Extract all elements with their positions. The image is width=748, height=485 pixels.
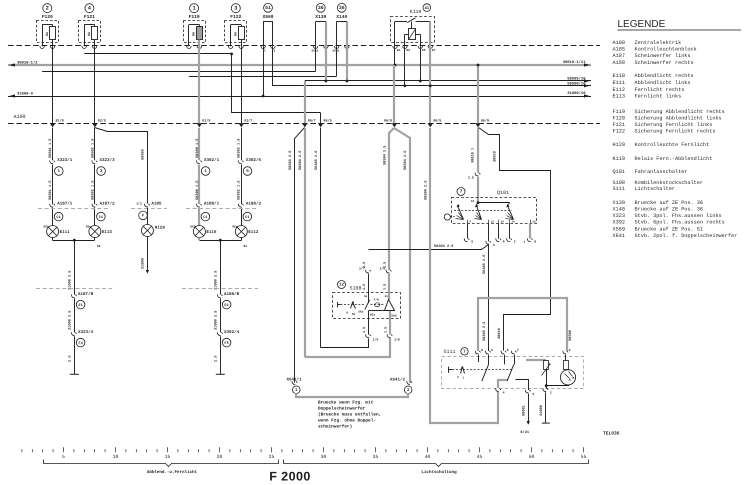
svg-text:LEGENDE: LEGENDE <box>618 19 666 30</box>
svg-text:E113: E113 <box>102 230 113 235</box>
fuse F119 circled position 1 <box>184 4 206 49</box>
svg-text:F121: F121 <box>84 14 95 20</box>
svg-text:Abblendlicht rechts: Abblendlicht rechts <box>635 73 694 79</box>
wire K119-30 to 30010 bus <box>394 46 396 65</box>
switch Q101 Fahranlasschalter box <box>452 188 537 224</box>
S111 bottom clip 4 <box>496 388 505 394</box>
wire 58300 from X392/1 down to headlamp connector A188/1 <box>198 165 200 205</box>
svg-text:58502 1.5: 58502 1.5 <box>90 139 95 158</box>
connector X323/3 clip and pin circle <box>92 157 115 175</box>
svg-text:31: 31 <box>243 244 247 248</box>
S108 flasher cam ellipse F/N <box>374 298 380 307</box>
S108 top pin 1/7 clip <box>359 262 371 290</box>
svg-text:Fahranlasschalter: Fahranlasschalter <box>635 169 688 175</box>
S108 dip contact slash <box>365 300 370 310</box>
wire terminal 86/8 riser from K119-30 node (gray) <box>393 65 395 123</box>
wire X323/4 to ground bar <box>74 336 76 374</box>
wire 58305 from Q101 clip 3 down to S111 clip 6 <box>482 245 489 351</box>
wire 58501 from X323/1 down to headlamp connector A187/1 <box>52 165 54 205</box>
svg-text:Bruecke wenn Fzg. mit: Bruecke wenn Fzg. mit <box>318 399 374 405</box>
S108 top pin 1/6 clip (gray feed) <box>380 262 392 290</box>
svg-text:Scheinwerfer rechts: Scheinwerfer rechts <box>635 60 694 66</box>
svg-text:30010: 30010 <box>493 151 498 162</box>
K119 coil <box>405 29 421 47</box>
bridge X569 circled position 51 <box>261 3 275 48</box>
wire X392/4 to ground bar <box>220 336 222 374</box>
svg-text:A185: A185 <box>613 47 625 53</box>
Q101 contact arm 3 <box>506 204 514 220</box>
svg-text:Fernlicht links: Fernlicht links <box>635 94 682 100</box>
svg-text:Zentralelektrik: Zentralelektrik <box>635 40 682 46</box>
wire 30010 tap down to terminal 86/9 (gray) <box>477 65 479 123</box>
note text Bruecke wenn Fzg <box>318 399 381 429</box>
svg-text:X139: X139 <box>613 200 625 206</box>
connector A188/B <box>217 291 239 309</box>
svg-text:Stvb. 3pol. Fhs.aussen links: Stvb. 3pol. Fhs.aussen links <box>635 213 722 219</box>
wire 58302 from terminal down to connector X392/5 <box>241 128 243 160</box>
svg-text:56b: 56b <box>391 314 396 318</box>
svg-text:1.5: 1.5 <box>383 327 388 333</box>
svg-text:2: 2 <box>514 239 516 243</box>
svg-text:15: 15 <box>165 454 171 460</box>
Q101 clip 2 <box>507 224 516 244</box>
svg-text:wenn Fzg. ohne Doppel-: wenn Fzg. ohne Doppel- <box>318 417 376 423</box>
svg-text:X569: X569 <box>262 14 273 20</box>
junction X140-2 on 58505 <box>346 80 349 83</box>
S111 clip8-clip2 jumper rail (gray) <box>478 298 567 351</box>
bridge X140 circled position 36 <box>334 3 349 48</box>
wire H129 ground stub <box>147 237 149 271</box>
svg-text:10: 10 <box>113 454 119 460</box>
terminal 81/5 on A100 lower edge <box>197 118 211 127</box>
svg-text:2: 2 <box>569 348 571 352</box>
S111 bottom clip 3 wire 58001 to socket 8/21 <box>520 389 534 435</box>
svg-text:31000 2.5: 31000 2.5 <box>68 271 73 290</box>
svg-text:S111: S111 <box>444 349 456 355</box>
wire into lamp E111 <box>52 208 54 226</box>
svg-text:2: 2 <box>46 5 49 11</box>
svg-text:56a: 56a <box>358 311 363 314</box>
lamp E112 <box>235 226 247 238</box>
section brace Lichtschaltung <box>284 460 589 476</box>
Q101 clip 5 <box>464 224 473 244</box>
ground bar right <box>216 373 225 375</box>
svg-text:X569: X569 <box>613 226 625 232</box>
svg-text:X392: X392 <box>613 219 625 225</box>
terminal 86/9 on A100 lower edge <box>475 118 489 127</box>
svg-text:56: 56 <box>352 313 356 316</box>
svg-text:Scheinwerfer links: Scheinwerfer links <box>635 53 691 59</box>
svg-text:H129: H129 <box>155 225 166 230</box>
svg-text:25: 25 <box>269 454 275 460</box>
wire node 86/5 feed at y113 <box>232 112 321 114</box>
S108 bottom pin 1/5 clip <box>362 318 379 341</box>
S108 internal link to bottom-left pin <box>369 310 385 312</box>
wire 86/8 diagonal to X641/2 column (gray) <box>394 128 410 383</box>
S108 internal gray drop bottom-right <box>389 311 391 319</box>
svg-text:8: 8 <box>534 239 536 243</box>
svg-text:Bruecke auf ZE Pos. 51: Bruecke auf ZE Pos. 51 <box>635 226 704 232</box>
headlamp connector A188/1 <box>197 201 220 221</box>
wire 30010 thin branch from 86/9 to S111 clip 5 <box>479 128 551 351</box>
svg-text:81/7: 81/7 <box>244 118 252 123</box>
svg-text:58302 1.5: 58302 1.5 <box>237 181 242 200</box>
Q101 key symbol <box>444 214 455 220</box>
svg-text:58302 1.5: 58302 1.5 <box>237 139 242 158</box>
wire X569 pin1 to 31000 bus <box>263 46 265 96</box>
connector X641/2 <box>390 376 412 393</box>
A187 headlamp unit boundary dashed <box>38 208 109 210</box>
A188 headlamp unit boundary dashed <box>186 208 256 210</box>
svg-text:58501 1.5: 58501 1.5 <box>48 181 53 200</box>
S111 panel lamp resistor <box>564 355 569 370</box>
svg-text:3: 3 <box>532 392 534 396</box>
svg-text:56: 56 <box>364 295 368 298</box>
wire S108 1/8 loop bottom (gray) <box>305 338 390 357</box>
svg-text:E113: E113 <box>613 94 625 100</box>
wire S108 1/7 into box <box>368 274 370 303</box>
svg-text:X139: X139 <box>315 14 326 20</box>
svg-text:Kontrolleuchtenblock: Kontrolleuchtenblock <box>635 47 697 53</box>
svg-text:K119: K119 <box>410 9 422 15</box>
svg-text:35: 35 <box>373 454 379 460</box>
K119 pin 30 wire <box>394 22 396 47</box>
wire E111/E113 common ground link <box>53 240 95 242</box>
A187/B boundary dashed <box>36 288 112 290</box>
A100 Zentralelektrik top boundary dashed line <box>8 45 600 47</box>
svg-text:1: 1 <box>192 5 195 11</box>
svg-text:8/21: 8/21 <box>520 430 529 435</box>
wire S108 1/6 into box (gray) <box>388 274 390 300</box>
svg-text:F122: F122 <box>230 14 241 20</box>
svg-text:58504 2.5: 58504 2.5 <box>382 146 387 165</box>
svg-text:F119: F119 <box>613 109 625 115</box>
svg-text:86/9: 86/9 <box>481 118 489 123</box>
svg-text:2.5: 2.5 <box>382 262 387 268</box>
wire X139 right pin to 58505 rail (gray) <box>325 46 327 81</box>
svg-text:E110: E110 <box>206 230 217 235</box>
svg-text:Abblendlicht links: Abblendlicht links <box>635 80 691 86</box>
terminal 86/8 on A100 lower edge <box>384 118 397 127</box>
svg-text:58501 1.5: 58501 1.5 <box>48 139 53 158</box>
svg-text:30010: 30010 <box>497 328 502 339</box>
connector A187/B <box>71 291 93 309</box>
wire 31000 down to X392/4 <box>220 298 222 332</box>
svg-text:86/5: 86/5 <box>433 118 441 123</box>
wire S108 1/5 loop bottom <box>321 339 369 348</box>
svg-text:2.5: 2.5 <box>68 356 73 362</box>
legend panel <box>613 19 742 239</box>
S111 clip4 internal gray stub <box>498 380 507 388</box>
svg-text:F 2000: F 2000 <box>269 469 311 483</box>
svg-text:Bruecke auf ZE Pos. 36: Bruecke auf ZE Pos. 36 <box>635 200 704 206</box>
svg-text:1/1: 1/1 <box>136 201 142 205</box>
wire X139 left pin drop <box>315 46 317 71</box>
S111 instrument lamp <box>560 370 575 385</box>
S111 manual knob symbol <box>449 366 514 379</box>
svg-text:82/5: 82/5 <box>98 118 106 123</box>
svg-text:C1: C1 <box>56 215 60 220</box>
wire lamp E112 to ground link <box>241 238 243 241</box>
wire K119-87 down to terminal 86/5b (gray) <box>429 46 431 123</box>
svg-text:58300 1.5: 58300 1.5 <box>195 181 200 200</box>
Q101 arm2 tip link <box>476 203 478 206</box>
svg-text:Q101: Q101 <box>497 190 509 196</box>
svg-text:50: 50 <box>501 221 505 224</box>
wire X140 left pin drop <box>336 46 338 76</box>
svg-text:19: 19 <box>512 221 516 224</box>
svg-text:Kombilenkstockschalter: Kombilenkstockschalter <box>635 180 704 186</box>
wire X140 right pin to 58505 rail (gray) <box>346 46 348 81</box>
headlamp connector A187/2 <box>92 201 115 221</box>
svg-text:2.5: 2.5 <box>214 356 219 362</box>
svg-text:55: 55 <box>581 454 587 460</box>
wire lamp E113 to ground link <box>94 238 96 241</box>
svg-text:F5: F5 <box>224 341 228 346</box>
svg-text:86/5: 86/5 <box>324 118 332 123</box>
junction ground link A188 <box>219 239 222 242</box>
svg-text:36: 36 <box>318 5 324 11</box>
svg-text:58305 2.5: 58305 2.5 <box>482 255 487 274</box>
svg-text:K119: K119 <box>613 156 625 162</box>
wire 86/5a down to S108 loop <box>320 128 322 348</box>
svg-text:S108: S108 <box>350 285 362 291</box>
svg-text:Sicherung Abblendlicht rechts: Sicherung Abblendlicht rechts <box>635 109 725 115</box>
svg-text:58504 2.5: 58504 2.5 <box>403 151 408 170</box>
wire E110/E112 common ground link <box>200 240 242 242</box>
Q101 clip 6 <box>496 224 505 244</box>
svg-text:Relais Fern.-Abblendlicht: Relais Fern.-Abblendlicht <box>635 156 713 162</box>
fuse F120 circled position 2 <box>37 4 59 49</box>
wire F121 output to terminal 82/5 <box>94 46 96 123</box>
lamp E111 <box>47 226 59 238</box>
S111 dimmer resistor with arrow <box>526 360 550 386</box>
svg-text:31000 2.5: 31000 2.5 <box>214 311 219 330</box>
svg-text:S108: S108 <box>613 180 625 186</box>
svg-text:7: 7 <box>523 240 525 244</box>
wire 58502 from terminal down to connector X323/3 <box>94 128 96 160</box>
S108 mechanical link dashed to flash contact <box>371 304 385 306</box>
headlamp connector A188/2 <box>238 201 261 221</box>
svg-text:58502 1.5: 58502 1.5 <box>90 181 95 200</box>
svg-text:30010-1/2: 30010-1/2 <box>17 60 38 65</box>
svg-text:A188: A188 <box>613 60 625 66</box>
svg-text:56: 56 <box>385 295 389 298</box>
S111 bottom clip 1 wire 31000 to ground <box>539 388 552 423</box>
wire 58302 from X392/5 down to headlamp connector A188/2 <box>241 165 243 205</box>
K119 changeover contact <box>395 18 430 29</box>
connector X392/1 clip and pin circle <box>197 157 220 175</box>
A185 connector pin 1/1 <box>136 201 162 219</box>
S108 manual lever symbol <box>337 301 364 317</box>
switch S111 Lichtschalter box <box>442 348 584 389</box>
wire 58505 corner down through terminal 86/7 (gray) <box>304 81 306 123</box>
svg-text:Bruecke auf ZE Pos. 36: Bruecke auf ZE Pos. 36 <box>635 206 704 212</box>
S108 bottom pin 1/8 clip (gray) <box>383 318 400 341</box>
Q101 contact arm 1 <box>456 204 464 220</box>
svg-text:E111: E111 <box>60 230 71 235</box>
svg-text:Lichtschalter: Lichtschalter <box>635 186 675 192</box>
wire 58300 from terminal down to connector X392/1 <box>198 128 200 160</box>
svg-text:86: 86 <box>406 49 410 52</box>
wire 30010-1/2 main supply bus (thick gray) <box>8 60 591 66</box>
S111 top clips 8 6 5 7 2 <box>475 348 570 354</box>
svg-text:Sicherung Fernlicht links: Sicherung Fernlicht links <box>635 122 713 128</box>
svg-text:scheinwerfer): scheinwerfer) <box>318 423 352 429</box>
svg-text:31000 2.5: 31000 2.5 <box>214 271 219 290</box>
svg-text:87: 87 <box>432 49 436 52</box>
svg-text:31: 31 <box>97 244 101 248</box>
S111 clip3 internal link <box>516 380 529 389</box>
svg-text:X641: X641 <box>613 233 625 239</box>
switch S108 Kombilenkstockschalter box <box>333 281 401 319</box>
wire 31000-9 ground bus <box>8 91 591 97</box>
wire 58500 gray from 86/5b down and loop to S111 clip 4 (gray) <box>430 128 498 423</box>
svg-text:E1: E1 <box>224 303 228 308</box>
svg-text:6: 6 <box>503 239 505 243</box>
terminal 86/7 on A100 lower edge <box>302 118 316 127</box>
svg-text:Fernlicht rechts: Fernlicht rechts <box>635 87 685 93</box>
svg-text:4: 4 <box>503 391 505 395</box>
wire F122 left pin down to y113 node <box>231 54 233 113</box>
bridge X139 circled position 36 <box>313 3 328 48</box>
connector X641/1 <box>287 376 303 393</box>
svg-text:A100: A100 <box>613 40 625 46</box>
svg-text:86/7: 86/7 <box>308 118 316 123</box>
svg-text:30010 1: 30010 1 <box>471 148 476 163</box>
svg-text:E110: E110 <box>613 73 625 79</box>
svg-text:58503 2.5: 58503 2.5 <box>288 151 293 170</box>
headlamp connector A187/1 <box>50 201 73 221</box>
svg-text:1: 1 <box>264 50 266 53</box>
connector X392/5 clip and pin circle <box>238 157 261 175</box>
relay K119 box <box>391 4 435 43</box>
svg-text:A185: A185 <box>151 202 162 207</box>
svg-text:58505/10: 58505/10 <box>567 76 586 81</box>
junction K119-30 on 30010 <box>394 64 397 67</box>
wire X569 pin2 to 58500 rail <box>273 47 274 86</box>
svg-text:50: 50 <box>529 454 535 460</box>
svg-text:58504 2.5: 58504 2.5 <box>298 151 303 170</box>
svg-text:30: 30 <box>397 49 401 52</box>
wire K119-85 to 58505 rail <box>420 46 422 81</box>
S111 contact slash 1 <box>479 355 489 381</box>
wire into lamp E112 <box>241 208 243 226</box>
svg-text:58500/10: 58500/10 <box>567 82 586 87</box>
A188/B boundary dashed <box>182 288 258 290</box>
wire into lamp E113 <box>94 208 96 226</box>
svg-text:58: 58 <box>532 221 536 224</box>
svg-text:30: 30 <box>471 200 475 203</box>
svg-text:F122: F122 <box>613 128 625 134</box>
svg-text:5: 5 <box>471 239 473 243</box>
svg-text:0: 0 <box>346 312 348 315</box>
K119 pin clips and labels 30 86 85 87 <box>393 46 436 52</box>
junction F122 input <box>230 53 233 56</box>
lamp E110 <box>193 226 205 238</box>
terminal 82/5 on A100 lower edge <box>92 118 106 127</box>
svg-text:8: 8 <box>481 348 483 352</box>
wire X641 bridge loop (gray) <box>296 393 408 397</box>
svg-text:86/8: 86/8 <box>384 118 392 123</box>
wire node down to terminal 86/5a <box>320 113 322 123</box>
svg-text:Sicherung Abblendlicht links: Sicherung Abblendlicht links <box>635 115 722 121</box>
fuse F122 circled position 3 <box>225 4 247 49</box>
wire F120 output to terminal 81/9 <box>52 46 54 123</box>
svg-text:5: 5 <box>507 348 509 352</box>
Q101 common rail with junction <box>478 202 510 204</box>
junction X139-2 on 58505 <box>325 80 328 83</box>
wire 58303 horizontal from S108 1/7 to Q101 clip 3 <box>369 244 489 249</box>
wire 58501 from terminal down to connector X323/1 <box>52 128 54 160</box>
S108 rotary contact triangle <box>385 300 395 311</box>
junction K119-87 on 58500 <box>429 84 432 87</box>
wire F119 output to terminal 81/5 (gray) <box>198 46 200 123</box>
svg-text:Doppelscheinwerfer: Doppelscheinwerfer <box>318 405 366 411</box>
svg-text:58503: 58503 <box>141 149 146 160</box>
svg-text:7: 7 <box>460 189 463 195</box>
connector X323/1 clip and pin circle <box>50 157 73 175</box>
svg-text:1.5: 1.5 <box>362 327 367 333</box>
wire 86/7 down to S108 loop (gray) <box>304 128 306 357</box>
wire 58502 from X323/3 down to headlamp connector A187/2 <box>94 165 96 205</box>
svg-text:X140: X140 <box>336 14 347 20</box>
wire 31000 down to X323/4 <box>74 298 76 332</box>
Q101 clip 3 junction of 58303/58305 <box>486 224 495 248</box>
svg-text:81/9: 81/9 <box>56 118 64 123</box>
wire F119 to X140 link at y76 <box>189 76 337 78</box>
svg-text:F120: F120 <box>613 115 625 121</box>
terminal 86/5 on A100 lower edge <box>318 118 332 127</box>
svg-text:58500: 58500 <box>568 330 573 341</box>
wire 58500/10 rail <box>273 82 591 88</box>
svg-text:2.5: 2.5 <box>362 262 367 268</box>
wire 86/7 diagonal to X641/1 column <box>295 128 305 383</box>
Q101 mechanical dashed link <box>454 210 512 212</box>
svg-text:1.5: 1.5 <box>362 284 367 290</box>
svg-text:C1: C1 <box>203 215 207 220</box>
svg-text:2.5: 2.5 <box>468 176 474 180</box>
svg-text:1.5: 1.5 <box>382 284 387 290</box>
Q101 clip 8 (gray) <box>523 224 536 244</box>
measure ruler <box>22 447 587 460</box>
svg-text:Stvb. 2pol. f. Doppelscheinwer: Stvb. 2pol. f. Doppelscheinwerfer <box>635 233 738 239</box>
svg-text:F121: F121 <box>613 122 625 128</box>
wire ground drop to A188/B <box>220 240 222 294</box>
svg-text:Sicherung Fernlicht rechts: Sicherung Fernlicht rechts <box>635 128 716 134</box>
wire F120 to X139 link at y71 <box>42 71 316 73</box>
connector X392/4 <box>217 329 239 347</box>
svg-text:31000: 31000 <box>141 258 146 269</box>
svg-text:3: 3 <box>493 243 495 247</box>
svg-text:36: 36 <box>339 5 345 11</box>
svg-text:TEL036: TEL036 <box>603 430 620 436</box>
svg-text:58305 2.5: 58305 2.5 <box>482 322 487 341</box>
svg-text:Kontrolleuchte Fernlicht: Kontrolleuchte Fernlicht <box>635 142 710 148</box>
svg-text:C1: C1 <box>245 215 249 220</box>
wire F121/F122 link at y54 <box>84 53 231 55</box>
fuse F121 circled position 4 <box>79 4 101 49</box>
svg-text:1/8: 1/8 <box>394 337 400 341</box>
svg-text:2: 2 <box>274 50 276 53</box>
terminal 81/7 on A100 lower edge <box>239 118 253 127</box>
svg-text:81/5: 81/5 <box>202 118 210 123</box>
terminal 86/5 on A100 lower edge <box>428 118 442 127</box>
svg-text:31000-9: 31000-9 <box>17 91 34 96</box>
wire 58505/10 low-beam rail <box>305 76 591 82</box>
svg-text:7: 7 <box>517 348 519 352</box>
svg-text:31000 2.5: 31000 2.5 <box>68 311 73 330</box>
